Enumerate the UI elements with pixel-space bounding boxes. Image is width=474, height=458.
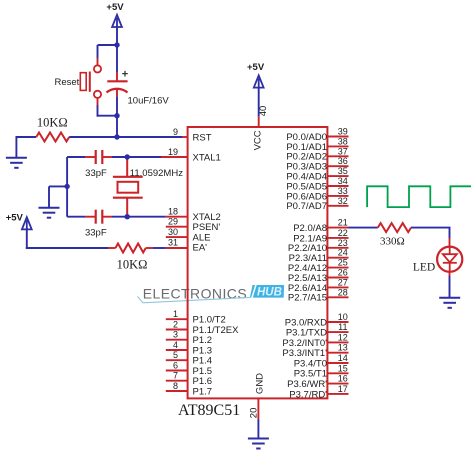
svg-text:27: 27 (338, 277, 348, 287)
svg-text:P3.7/RD': P3.7/RD' (289, 389, 327, 400)
svg-text:XTAL1: XTAL1 (193, 152, 221, 163)
svg-text:22: 22 (338, 228, 348, 238)
svg-text:23: 23 (338, 238, 348, 248)
svg-text:P2.7/A15: P2.7/A15 (288, 293, 327, 304)
svg-text:8: 8 (173, 381, 178, 391)
svg-text:AT89C51: AT89C51 (178, 402, 240, 419)
svg-text:28: 28 (338, 287, 348, 297)
svg-text:24: 24 (338, 248, 348, 258)
svg-text:21: 21 (338, 218, 348, 228)
svg-text:HUB: HUB (257, 287, 282, 299)
svg-text:11: 11 (338, 322, 347, 332)
svg-text:+5V: +5V (6, 213, 24, 224)
svg-text:20: 20 (249, 408, 260, 419)
svg-text:32: 32 (338, 196, 348, 206)
svg-text:37: 37 (338, 146, 348, 156)
svg-text:39: 39 (338, 127, 348, 137)
svg-text:40: 40 (258, 106, 269, 117)
svg-text:35: 35 (338, 166, 348, 176)
svg-text:17: 17 (338, 384, 348, 394)
svg-text:5: 5 (173, 350, 178, 360)
svg-text:38: 38 (338, 136, 348, 146)
svg-text:+5V: +5V (247, 62, 265, 73)
svg-text:31: 31 (168, 238, 178, 248)
svg-text:LED: LED (413, 262, 435, 274)
svg-text:33: 33 (338, 186, 348, 196)
svg-text:16: 16 (338, 374, 348, 384)
svg-text:15: 15 (338, 363, 348, 373)
svg-text:11.0592MHz: 11.0592MHz (130, 168, 183, 179)
svg-text:33pF: 33pF (85, 227, 107, 238)
svg-text:2: 2 (173, 320, 178, 330)
svg-text:34: 34 (338, 176, 348, 186)
svg-text:10KΩ: 10KΩ (37, 116, 68, 130)
svg-text:RST: RST (193, 132, 212, 143)
svg-text:19: 19 (168, 147, 178, 157)
svg-text:6: 6 (173, 361, 178, 371)
svg-text:7: 7 (173, 371, 178, 381)
svg-text:10: 10 (338, 312, 348, 322)
svg-text:18: 18 (168, 207, 178, 217)
svg-text:Reset: Reset (54, 77, 79, 88)
svg-text:P1.7: P1.7 (193, 386, 213, 397)
svg-text:25: 25 (338, 258, 348, 268)
svg-text:14: 14 (338, 353, 348, 363)
svg-text:GND: GND (255, 373, 266, 394)
svg-text:1: 1 (173, 309, 178, 319)
svg-text:P0.7/AD7: P0.7/AD7 (286, 201, 327, 212)
svg-text:29: 29 (168, 217, 178, 227)
svg-text:9: 9 (173, 127, 178, 137)
svg-text:+: + (122, 69, 128, 81)
svg-text:PSEN': PSEN' (193, 222, 221, 233)
svg-text:10uF/16V: 10uF/16V (128, 95, 170, 106)
svg-text:26: 26 (338, 268, 348, 278)
svg-text:VCC: VCC (253, 130, 264, 150)
svg-text:4: 4 (173, 340, 178, 350)
svg-text:330Ω: 330Ω (380, 236, 405, 248)
svg-text:EA': EA' (193, 243, 208, 254)
svg-text:12: 12 (338, 332, 348, 342)
svg-text:+5V: +5V (106, 2, 124, 13)
svg-text:30: 30 (168, 227, 178, 237)
svg-text:3: 3 (173, 330, 178, 340)
svg-text:ELECTRONICS: ELECTRONICS (143, 286, 247, 302)
svg-text:13: 13 (338, 343, 348, 353)
svg-text:10KΩ: 10KΩ (117, 257, 148, 271)
svg-text:36: 36 (338, 156, 348, 166)
svg-text:33pF: 33pF (85, 168, 107, 179)
